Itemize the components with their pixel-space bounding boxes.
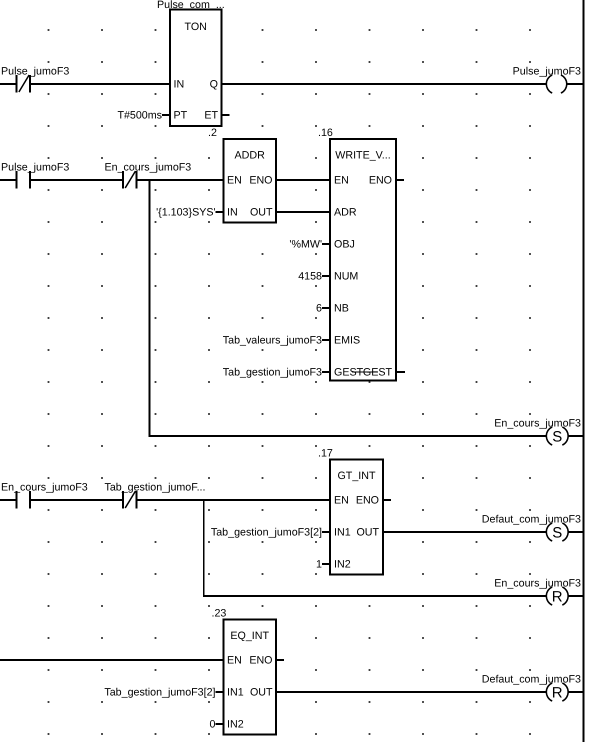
value Tab_gestion_jumoF3[2] on EQ_INT.IN1 [104,687,223,699]
svg-text:GT_INT: GT_INT [337,470,375,482]
svg-text:'{1.103}SYS': '{1.103}SYS' [156,207,215,219]
value '%MW' on WRITE_VAR.OBJ [289,239,330,251]
pin IN1 (GT_INT) [334,527,351,539]
wire rung1: left rail to contact [0,83,17,85]
svg-text:NUM: NUM [334,271,358,283]
wire reset coil to right rail (rung4) [568,691,584,693]
coil Pulse_jumoF3 [513,66,581,94]
pin EN (GT_INT) [334,495,349,507]
pin ENO (EQ_INT) [249,655,272,667]
svg-text:Pulse_jumoF3: Pulse_jumoF3 [1,162,69,174]
pin NB (WRITE_VAR) [334,303,349,315]
svg-text:IN2: IN2 [227,719,244,731]
pin EMIS (WRITE_VAR) [334,335,360,347]
wire branch to Set coil En_cours_jumoF3 [149,435,547,437]
value 6 on WRITE_VAR.NB [316,303,330,315]
svg-text:Tab_gestion_jumoF...: Tab_gestion_jumoF... [105,482,206,494]
svg-text:TON: TON [185,21,207,33]
svg-text:EN: EN [334,175,349,187]
right power rail [582,0,584,742]
svg-text:.17: .17 [318,448,333,460]
function block WRITE_VAR (instance .16) [318,127,396,381]
function block ADDR (instance .2) [208,127,276,223]
svg-text:EQ_INT: EQ_INT [230,630,269,642]
pin GEST input (WRITE_VAR) [334,367,364,379]
svg-text:NB: NB [334,303,349,315]
svg-text:GEST: GEST [334,367,364,379]
svg-text:S: S [552,524,562,541]
svg-text:ENO: ENO [249,655,272,667]
wire rung4: left rail to EQ_INT.EN [0,659,224,661]
value T#500ms on TON.PT [117,110,170,122]
svg-text:OBJ: OBJ [334,239,355,251]
value Tab_gestion_jumoF3 on WRITE_VAR.GEST [223,367,330,379]
pin OUT (GT_INT) [356,527,379,539]
svg-text:IN1: IN1 [227,687,244,699]
svg-text:EMIS: EMIS [334,335,360,347]
svg-text:1: 1 [316,559,322,571]
svg-text:Pulse_jumoF3: Pulse_jumoF3 [513,66,581,78]
svg-text:WRITE_V...: WRITE_V... [335,150,390,162]
svg-text:PT: PT [174,110,188,122]
value 4158 on WRITE_VAR.NUM [298,271,330,283]
wire ADDR.OUT to WRITE_VAR.ADR [276,211,330,213]
pin IN (TON) [174,79,185,91]
pin ENO (GT_INT) [356,495,379,507]
pin EN (WRITE_VAR) [334,175,349,187]
wire TON.Q to coil [222,83,547,85]
wire rung2: left rail to contact [0,179,17,181]
timer block U1 TON (instance Pulse_com_...) [157,0,225,126]
wire rung2: contact1 to contact2 [30,179,123,181]
value 1 on GT_INT.IN2 [316,559,330,571]
svg-text:6: 6 [316,303,322,315]
svg-text:ET: ET [204,110,218,122]
value Tab_valeurs_jumoF3 on WRITE_VAR.EMIS [223,335,330,347]
svg-text:OUT: OUT [250,687,273,699]
svg-text:4158: 4158 [298,271,322,283]
pin GEST output (WRITE_VAR) [363,367,393,379]
stub EQ_INT.ENO output [276,659,284,661]
stub GT_INT.ENO output [383,499,391,501]
wire reset coil to right rail [568,595,584,597]
svg-text:ADR: ADR [334,207,357,219]
contact Pulse_jumoF3 (normally open) [1,162,69,189]
pin OUT (ADDR) [250,207,273,219]
svg-text:ENO: ENO [249,175,272,187]
svg-text:EN: EN [227,655,242,667]
svg-text:Tab_gestion_jumoF3: Tab_gestion_jumoF3 [223,367,322,379]
wire set coil to right rail (rung3) [568,531,584,533]
svg-text:Tab_gestion_jumoF3[2]: Tab_gestion_jumoF3[2] [104,687,215,699]
pin OBJ (WRITE_VAR) [334,239,355,251]
pin IN2 (GT_INT) [334,559,351,571]
wire rung3: left rail to contact [0,499,17,501]
svg-text:Defaut_com_jumoF3: Defaut_com_jumoF3 [482,674,581,686]
contact En_cours_jumoF3 (normally closed) [105,162,192,189]
wire rung3: contact1 to contact2 [30,499,123,501]
svg-text:EN: EN [227,175,242,187]
value 0 on EQ_INT.IN2 [210,719,224,731]
svg-text:R: R [552,588,563,605]
svg-text:IN1: IN1 [334,527,351,539]
wire EQ_INT.OUT to reset coil [276,691,547,693]
pin OUT (EQ_INT) [250,687,273,699]
reset coil Defaut_com_jumoF3 (R) [482,674,581,702]
svg-text:Pulse_com_...: Pulse_com_... [157,0,225,11]
stub WRITE_VAR.GEST output [396,371,405,373]
svg-text:En_cours_jumoF3: En_cours_jumoF3 [494,418,581,430]
svg-text:ENO: ENO [356,495,379,507]
svg-text:OUT: OUT [356,527,379,539]
pin Q (TON) [210,79,218,91]
value Tab_gestion_jumoF3[2] on GT_INT.IN1 [211,527,330,539]
stub WRITE_VAR.ENO output [396,179,404,181]
pin EN (EQ_INT) [227,655,242,667]
contact Pulse_jumoF3 (normally closed) [1,66,69,93]
comparator block EQ_INT (instance .23) [212,608,277,735]
contact En_cours_jumoF3 (normally open) [1,482,88,509]
wire branch down from rung2 to Set coil row [149,180,151,436]
svg-text:S: S [552,428,562,445]
comparator block GT_INT (instance .17) [318,448,383,575]
svg-text:ADDR: ADDR [235,150,266,162]
svg-text:R: R [552,684,563,701]
pin IN (ADDR) [227,207,238,219]
pin ADR (WRITE_VAR) [334,207,357,219]
pin ENO (WRITE_VAR) [369,175,392,187]
wire branch to Reset coil En_cours_jumoF3 [203,595,547,597]
svg-text:'%MW': '%MW' [289,239,322,251]
pin EN (ADDR) [227,175,242,187]
wire rung1: contact to TON.IN [30,83,170,85]
set coil En_cours_jumoF3 (S) [494,418,581,446]
svg-text:Pulse_jumoF3: Pulse_jumoF3 [1,66,69,78]
value '{1.103}SYS' on ADDR.IN [156,207,223,219]
svg-text:Q: Q [210,79,218,91]
wire branch down from rung3 to Reset coil row [203,500,205,596]
set coil Defaut_com_jumoF3 (S) [482,514,581,542]
svg-text:T#500ms: T#500ms [117,110,162,122]
reset coil En_cours_jumoF3 (R) [494,578,581,606]
svg-text:OUT: OUT [250,207,273,219]
pin IN1 (EQ_INT) [227,687,244,699]
wire ADDR.ENO to WRITE_VAR.EN [276,179,330,181]
pin IN2 (EQ_INT) [227,719,244,731]
svg-text:GEST: GEST [363,367,393,379]
wire rung2: contact2 to ADDR.EN [136,179,223,181]
svg-text:En_cours_jumoF3: En_cours_jumoF3 [1,482,88,494]
pin NUM (WRITE_VAR) [334,271,358,283]
svg-text:ENO: ENO [369,175,392,187]
wire set coil to right rail [568,435,584,437]
stub TON.ET output [222,114,230,116]
pin ET (TON) [204,110,218,122]
wire rung3: contact2 to GT_INT.EN [136,499,330,501]
in_out link line GEST through block [352,371,378,373]
svg-text:IN: IN [227,207,238,219]
wire coil to right rail (rung1) [567,83,584,85]
svg-text:En_cours_jumoF3: En_cours_jumoF3 [494,578,581,590]
svg-text:0: 0 [210,719,216,731]
contact Tab_gestion_jumoF... (normally closed) [105,482,206,509]
svg-text:Tab_gestion_jumoF3[2]: Tab_gestion_jumoF3[2] [211,527,322,539]
svg-text:.16: .16 [318,127,333,139]
pin PT (TON) [174,110,188,122]
svg-text:EN: EN [334,495,349,507]
svg-text:En_cours_jumoF3: En_cours_jumoF3 [105,162,192,174]
pin ENO (ADDR) [249,175,272,187]
svg-text:Tab_valeurs_jumoF3: Tab_valeurs_jumoF3 [223,335,322,347]
svg-text:IN: IN [174,79,185,91]
svg-text:Defaut_com_jumoF3: Defaut_com_jumoF3 [482,514,581,526]
svg-text:.23: .23 [212,608,227,620]
svg-text:IN2: IN2 [334,559,351,571]
wire GT_INT.OUT to set coil [383,531,547,533]
svg-text:.2: .2 [208,127,217,139]
